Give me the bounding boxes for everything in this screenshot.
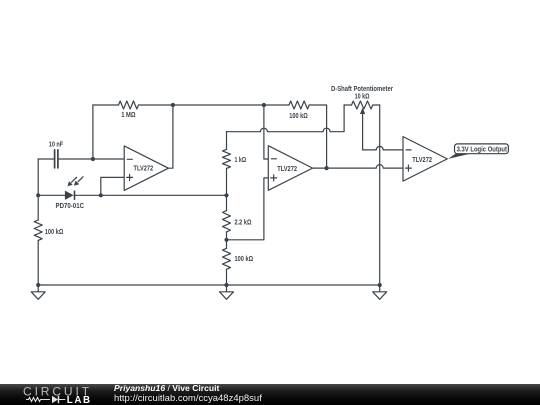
junction node fb1/cap [91, 157, 95, 161]
svg-text:1 kΩ: 1 kΩ [235, 157, 247, 164]
op-amp U3 minus sign [406, 149, 411, 151]
op-amp U2 triangle [268, 146, 312, 191]
wire 1k top row y=131.7 with hops [227, 105, 345, 132]
wire bottom ground rail y=285 [38, 284, 380, 286]
wire op2 output row y=168 with hop [313, 165, 403, 168]
op-amp U2 minus sign [271, 158, 276, 160]
wire wiper to op3 minus with hop [363, 146, 403, 150]
junction node rail right [378, 283, 382, 287]
footer line 2 [114, 393, 262, 404]
op-amp U1 minus sign [127, 158, 132, 160]
wire top feedback row y=105 [93, 105, 327, 168]
svg-text:100 kΩ: 100 kΩ [289, 113, 308, 120]
op-amp U2 plus sign [271, 175, 277, 181]
wire photodiode row y=195.3 [38, 194, 226, 196]
resistor R5 2.2 kΩ zigzag [223, 211, 231, 232]
wire op1 plus stub [101, 177, 124, 195]
photodiode D1 triangle [65, 191, 74, 200]
junction node divider mid [224, 238, 228, 242]
wire op2 minus vertical [264, 105, 268, 159]
resistor R3 1 kΩ zigzag [223, 149, 231, 168]
svg-text:LAB: LAB [67, 395, 92, 405]
wire 1k column vertical [226, 132, 228, 285]
photodiode D1 cathode bar [74, 191, 76, 200]
wire pot right vertical to ground rail [379, 105, 381, 285]
resistor R6 100 kΩ zigzag (bottom) [223, 248, 231, 269]
photodiode light arrow 2 [78, 176, 84, 182]
junction node left rail / photodiode [36, 193, 40, 197]
svg-text:TLV272: TLV272 [412, 157, 432, 164]
op-amp U3 triangle [403, 137, 447, 182]
junction node op2 minus / feedback [262, 103, 266, 107]
capacitor C1 plates [55, 150, 58, 168]
footer bar [0, 384, 540, 405]
resistor R2 100 kΩ zigzag (left) [34, 220, 42, 240]
resistor R4 100 kΩ zigzag (top) [289, 101, 309, 109]
wire op2 plus stub down to divider [227, 178, 269, 240]
svg-text:100 kΩ: 100 kΩ [235, 256, 254, 263]
potentiometer wiper arrow shaft [362, 114, 364, 150]
svg-text:TLV272: TLV272 [134, 165, 154, 172]
junction node op1 out / feedback [171, 103, 175, 107]
svg-text:3.3V Logic Output: 3.3V Logic Output [457, 146, 508, 153]
op-amp U1 triangle [124, 146, 168, 191]
potentiometer P1 row y=105 [344, 104, 380, 106]
footer line 1 [114, 383, 219, 393]
junction node 1k / photodiode [224, 193, 228, 197]
svg-text:2.2 kΩ: 2.2 kΩ [235, 220, 252, 227]
wire fb1 left vertical [92, 105, 94, 159]
svg-text:TLV272: TLV272 [277, 166, 297, 173]
op-amp U3 plus sign [405, 165, 411, 171]
junction node rail mid [224, 283, 228, 287]
svg-text:1 MΩ: 1 MΩ [121, 112, 136, 119]
output flag box 3.3V Logic Output [455, 144, 509, 154]
junction node op2 out [325, 166, 329, 170]
junction node photodiode / op1 plus [99, 193, 103, 197]
output flag pointer [448, 154, 470, 159]
circuitlab logo [0, 384, 100, 405]
svg-text:10 nF: 10 nF [49, 142, 64, 149]
ground GND1 [31, 285, 45, 299]
wire op1 output vertical [168, 105, 173, 168]
svg-text:100 kΩ: 100 kΩ [45, 229, 64, 236]
op-amp U1 plus sign [127, 174, 133, 180]
wire left rail vertical [37, 159, 39, 285]
photodiode light arrow 1 [71, 177, 77, 183]
svg-text:D-Shaft Potentiometer: D-Shaft Potentiometer [331, 86, 393, 93]
ground GND3 [373, 285, 387, 299]
junction node rail left [36, 283, 40, 287]
wire cap row / op1 minus y=159 [38, 158, 124, 160]
ground GND2 [220, 285, 234, 299]
svg-text:PD70-01C: PD70-01C [56, 203, 85, 210]
resistor R1 1 MΩ zigzag [119, 101, 139, 109]
wiper arrowhead [360, 108, 365, 115]
svg-text:10 kΩ: 10 kΩ [355, 94, 370, 101]
potentiometer P1 zigzag [352, 101, 373, 109]
